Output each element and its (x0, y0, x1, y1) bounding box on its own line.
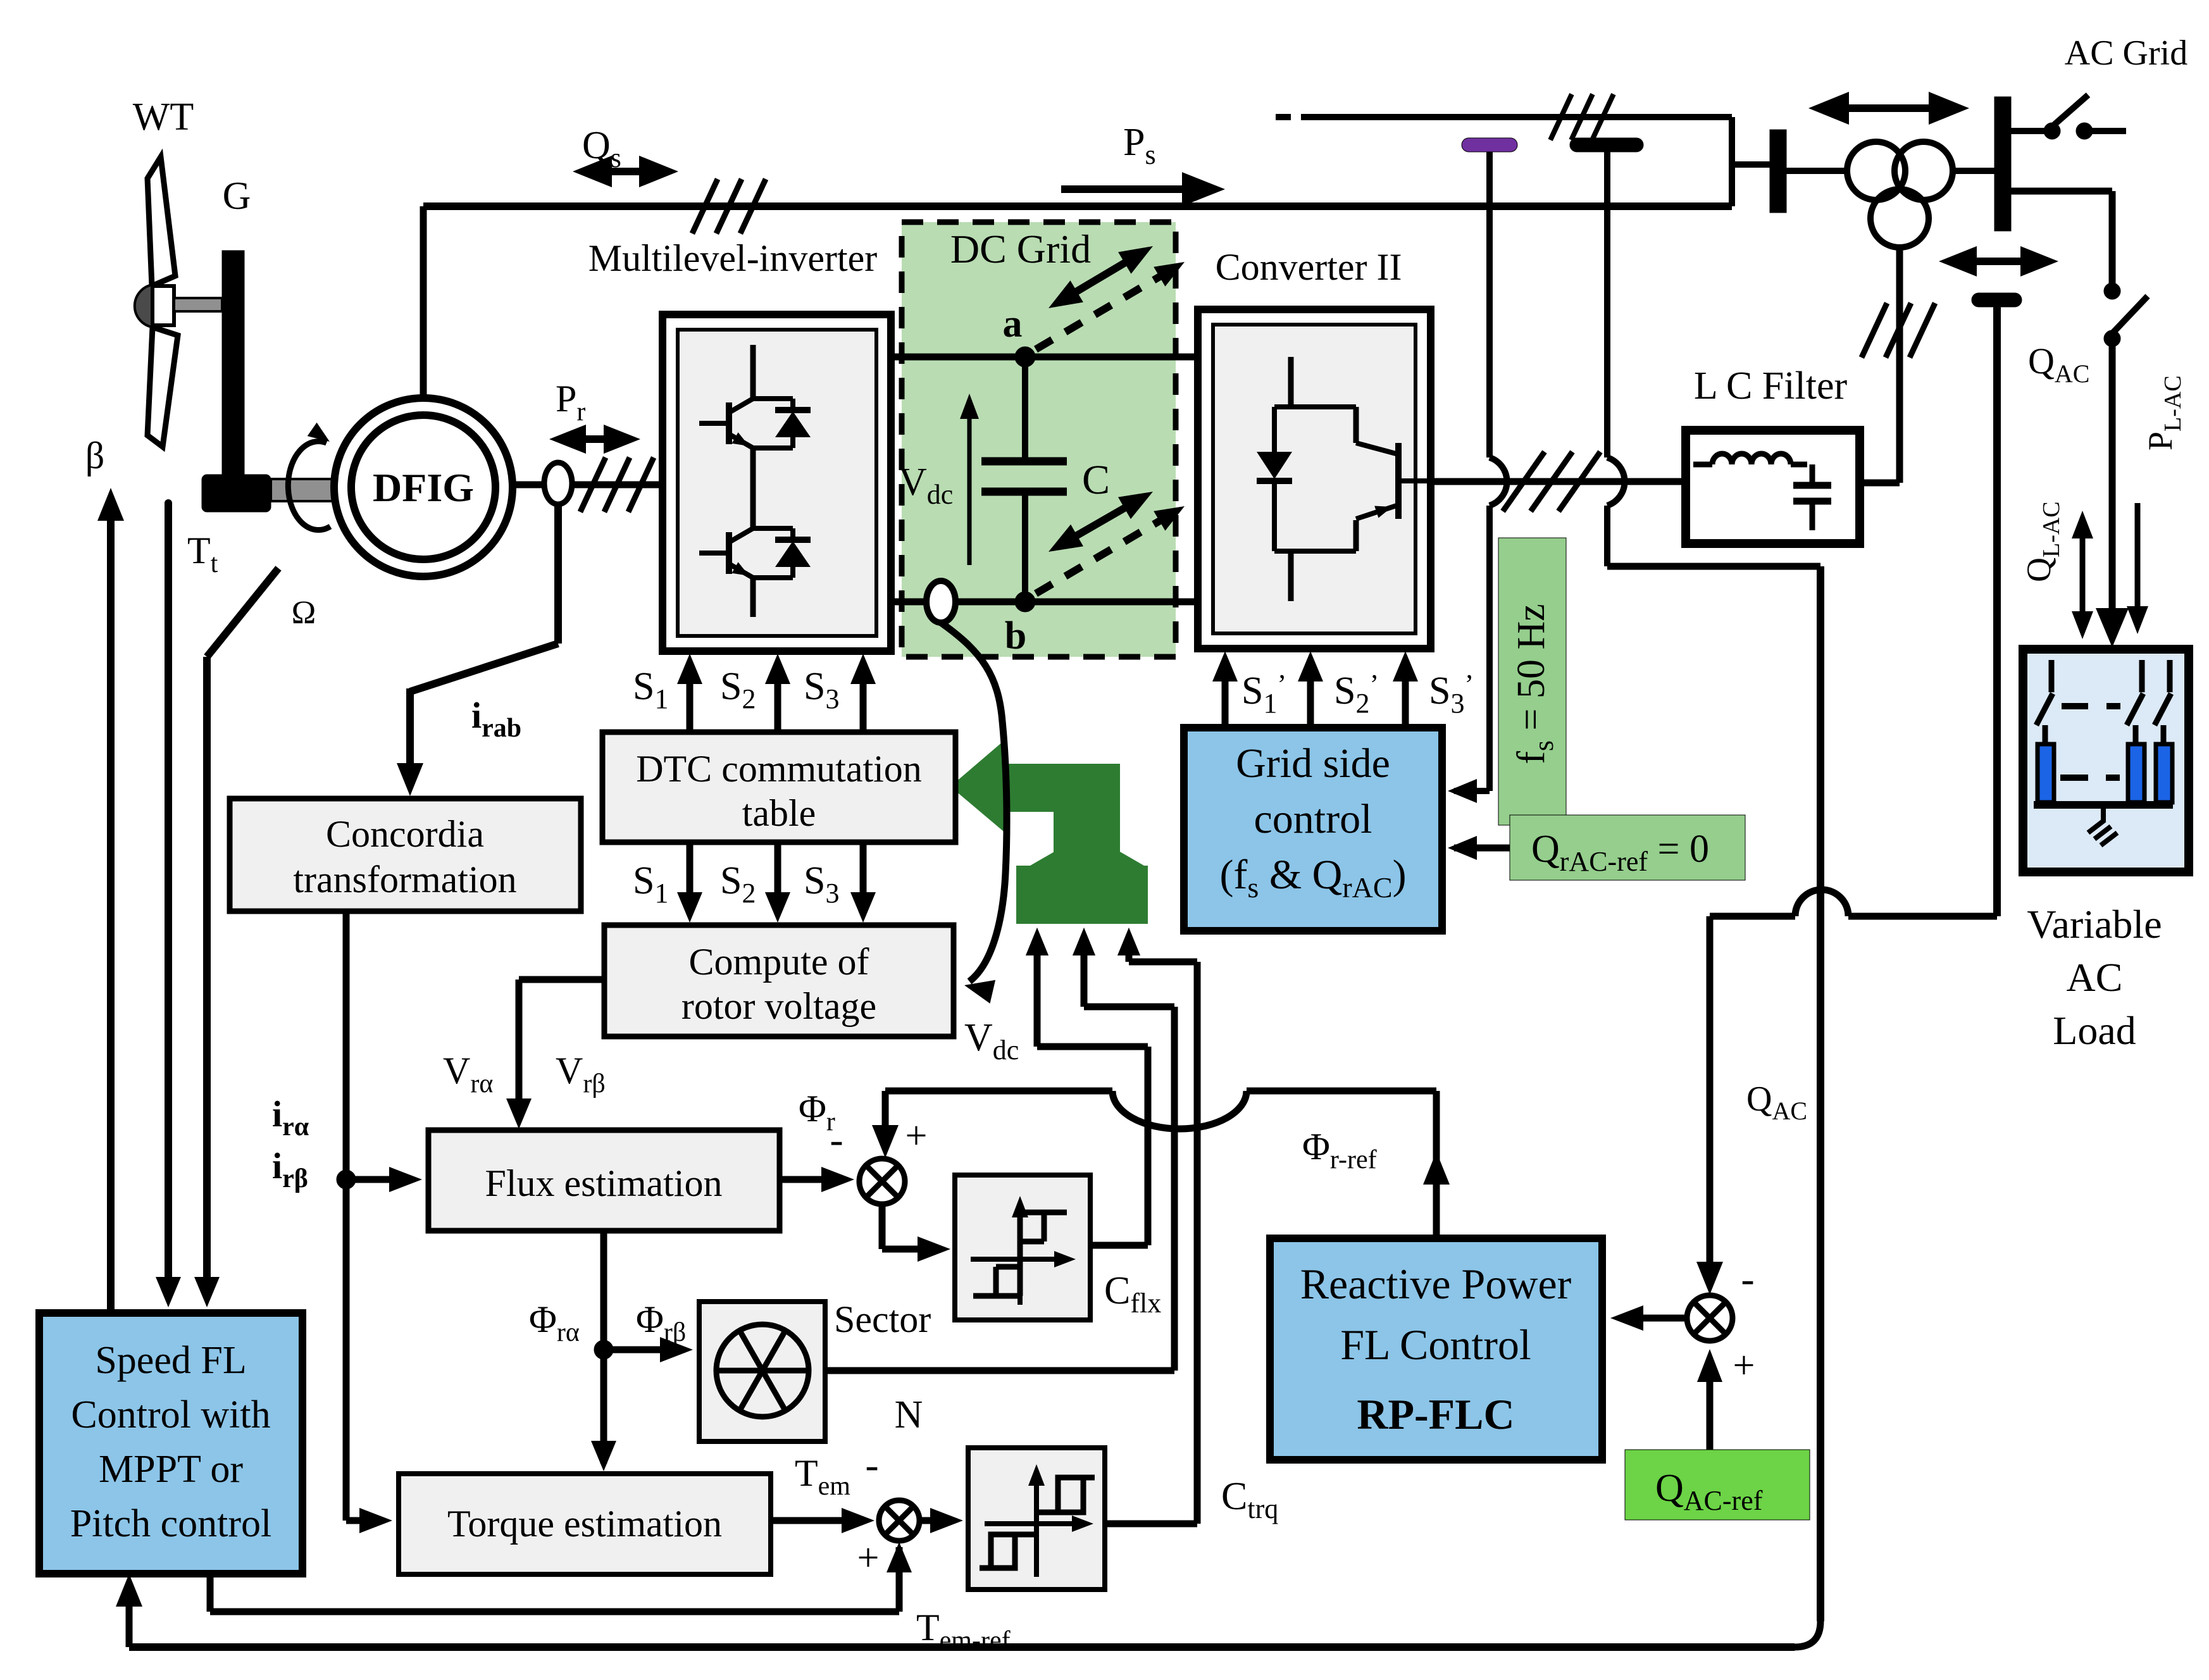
svg-text:DC Grid: DC Grid (950, 227, 1091, 271)
svg-text:RP-FLC: RP-FLC (1357, 1390, 1514, 1438)
svg-text:AC: AC (2067, 955, 2123, 1000)
svg-text:MPPT or: MPPT or (99, 1448, 243, 1491)
svg-text:control: control (1254, 796, 1372, 842)
svg-text:Reactive Power: Reactive Power (1300, 1260, 1572, 1308)
svg-text:rotor voltage: rotor voltage (681, 985, 876, 1027)
svg-text:DFIG: DFIG (373, 465, 474, 510)
svg-text:+: + (1733, 1344, 1755, 1387)
svg-text:+: + (857, 1536, 880, 1579)
svg-text:L C Filter: L C Filter (1694, 364, 1848, 408)
svg-text:+: + (905, 1114, 928, 1157)
svg-text:table: table (742, 792, 816, 834)
svg-text:Torque estimation: Torque estimation (447, 1503, 722, 1545)
svg-text:Load: Load (2053, 1008, 2136, 1053)
svg-text:Flux estimation: Flux estimation (485, 1162, 723, 1204)
svg-text:Concordia: Concordia (326, 813, 484, 855)
svg-text:a: a (1003, 302, 1023, 345)
svg-text:FL Control: FL Control (1340, 1321, 1531, 1369)
svg-text:C: C (1082, 457, 1110, 503)
svg-text:-: - (865, 1442, 878, 1487)
svg-text:-: - (1741, 1256, 1754, 1301)
svg-text:Grid side: Grid side (1236, 740, 1390, 787)
svg-text:WT: WT (133, 96, 194, 139)
svg-text:G: G (223, 175, 251, 218)
svg-text:Control with: Control with (71, 1393, 270, 1436)
svg-text:Sector: Sector (834, 1298, 931, 1340)
svg-text:Pitch control: Pitch control (70, 1502, 272, 1545)
svg-text:N: N (895, 1393, 923, 1436)
svg-text:transformation: transformation (293, 859, 516, 900)
svg-text:β: β (85, 435, 105, 476)
svg-text:Multilevel-inverter: Multilevel-inverter (588, 237, 878, 279)
svg-text:Speed FL: Speed FL (95, 1339, 246, 1382)
svg-text:fs = 50 Hz: fs = 50 Hz (1510, 604, 1559, 764)
svg-text:b: b (1005, 614, 1026, 657)
svg-text:AC Grid: AC Grid (2065, 34, 2187, 73)
svg-text:DTC commutation: DTC commutation (636, 748, 922, 790)
svg-text:Ω: Ω (292, 595, 316, 631)
svg-text:Variable: Variable (2027, 902, 2162, 947)
svg-text:Converter II: Converter II (1216, 246, 1402, 288)
svg-text:Compute of: Compute of (689, 941, 869, 983)
